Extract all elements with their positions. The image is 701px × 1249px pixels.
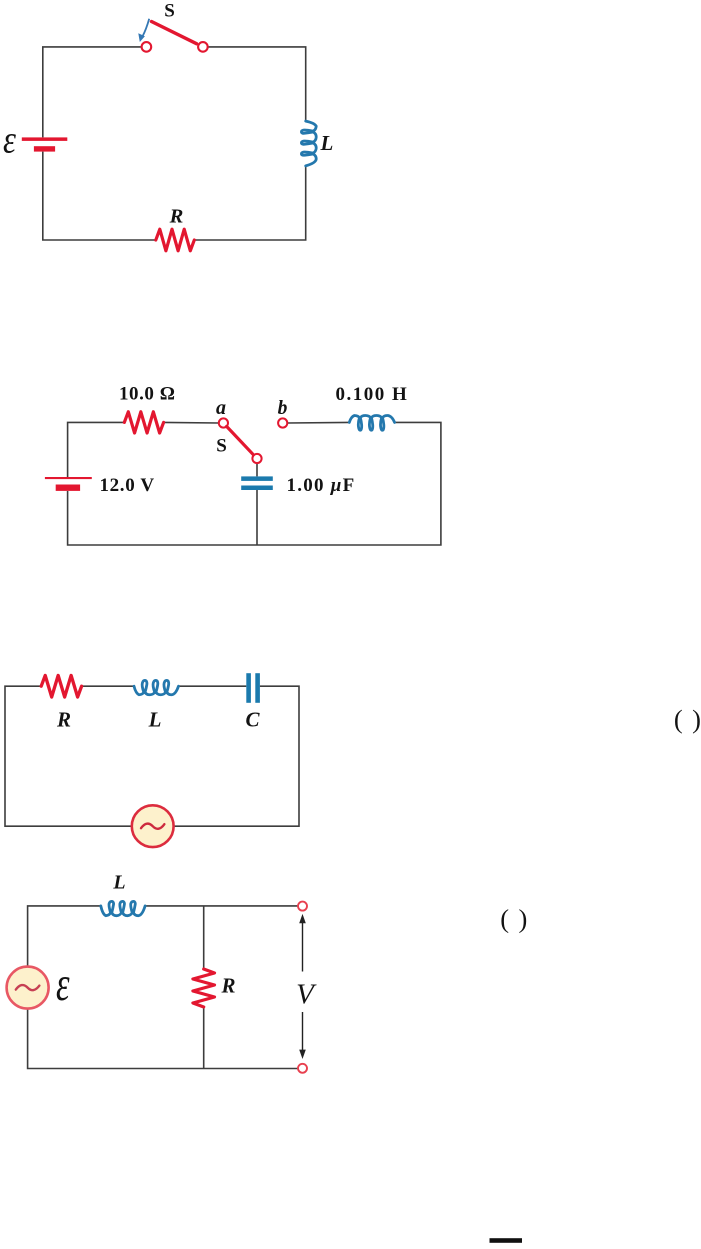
svg-text:R: R (169, 206, 184, 228)
svg-text:(: ( (500, 903, 509, 933)
svg-text:): ) (519, 903, 528, 933)
AC source circle (circuit 3) (132, 805, 174, 847)
battery 12.0 V long plate (circuit 2) (45, 477, 92, 479)
terminal circle top (circuit 4) (298, 902, 307, 911)
svg-text:L: L (148, 708, 162, 732)
resistor R (circuit 3) (41, 675, 81, 697)
capacitor C right plate (circuit 3) (255, 673, 260, 703)
fraction bar fragment at page bottom (490, 1238, 523, 1243)
inductor L coil (circuit 4) (101, 901, 145, 915)
answer parentheses 1 (674, 704, 701, 734)
svg-text:10.0 Ω: 10.0 Ω (119, 384, 176, 405)
wire: circuit-3 loop (outer rectangle with component gaps) (5, 686, 299, 826)
wire: circuit-2 loop (outer rectangle with component gaps) (68, 422, 441, 545)
switch S lower contact circle (circuit 2) (252, 454, 261, 463)
switch S (circuit 1): right contact circle (198, 42, 208, 52)
capacitor 1.00uF top plate (circuit 2) (241, 476, 273, 481)
terminal circle bottom (circuit 4) (298, 1064, 307, 1073)
svg-text:R: R (220, 973, 235, 997)
voltage arrow down (circuit 4) (299, 1012, 306, 1059)
switch contact b circle (circuit 2) (278, 418, 287, 427)
svg-text:ε: ε (3, 118, 17, 161)
svg-text:(: ( (674, 704, 683, 734)
svg-text:b: b (278, 398, 288, 419)
svg-text:): ) (692, 704, 701, 734)
answer parentheses 2 (500, 903, 527, 933)
switch S blade arm (circuit 2) (227, 426, 254, 455)
resistor R (circuit 1) (156, 229, 195, 251)
svg-text:0.100 H: 0.100 H (336, 384, 409, 405)
svg-text:L: L (112, 872, 125, 894)
wire: middle resistor branch (circuit 4) (203, 906, 205, 1069)
battery EMF (circuit 1): long plate (22, 137, 68, 141)
wire: capacitor branch (circuit 2) (256, 463, 258, 545)
svg-text:S: S (216, 436, 227, 457)
svg-text:12.0 V: 12.0 V (100, 475, 155, 496)
svg-text:a: a (216, 397, 226, 419)
wire: circuit-4 top/left/bottom wires (28, 906, 298, 1069)
svg-text:V: V (296, 979, 317, 1011)
switch S (circuit 1): blade arm (152, 22, 197, 44)
AC source sine tilde (circuit 3) (141, 824, 164, 829)
inductor 0.100 H coil (circuit 2) (349, 415, 394, 430)
resistor R vertical (circuit 4) (193, 969, 215, 1007)
svg-text:S: S (164, 1, 175, 22)
AC source EMF circle (circuit 4) (7, 967, 49, 1009)
resistor 10.0-ohm (circuit 2) (124, 412, 163, 433)
AC source sine tilde (circuit 4) (16, 985, 40, 990)
switch contact a circle (circuit 2) (219, 418, 228, 427)
inductor L (circuit 1, vertical coil) (301, 121, 316, 166)
battery EMF (circuit 1): short plate (34, 146, 55, 151)
inductor L coil (circuit 3) (134, 680, 179, 694)
svg-text:1.00 μF: 1.00 μF (287, 475, 356, 496)
annotation arrow at switch (circuit 1) (138, 19, 149, 42)
svg-text:ε: ε (56, 957, 70, 1011)
capacitor 1.00uF bottom plate (circuit 2) (241, 486, 273, 491)
battery 12.0 V short plate (circuit 2) (56, 485, 80, 491)
svg-text:L: L (320, 131, 334, 155)
voltage arrow up (circuit 4) (299, 914, 306, 972)
switch S (circuit 1): left contact circle (142, 42, 152, 52)
wire: circuit-1 loop (left/top/right/bottom with component gaps) (43, 47, 306, 240)
capacitor C left plate (circuit 3) (246, 673, 251, 703)
svg-text:C: C (245, 708, 260, 732)
svg-text:R: R (56, 708, 71, 732)
